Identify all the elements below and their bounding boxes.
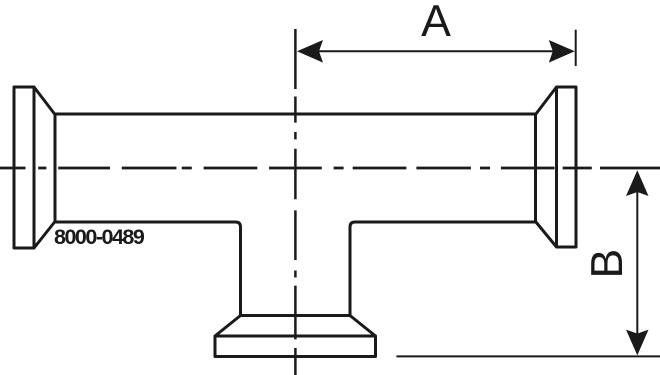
svg-text:8000-0489: 8000-0489 — [54, 225, 145, 249]
svg-text:A: A — [421, 0, 451, 46]
svg-text:B: B — [583, 249, 632, 279]
